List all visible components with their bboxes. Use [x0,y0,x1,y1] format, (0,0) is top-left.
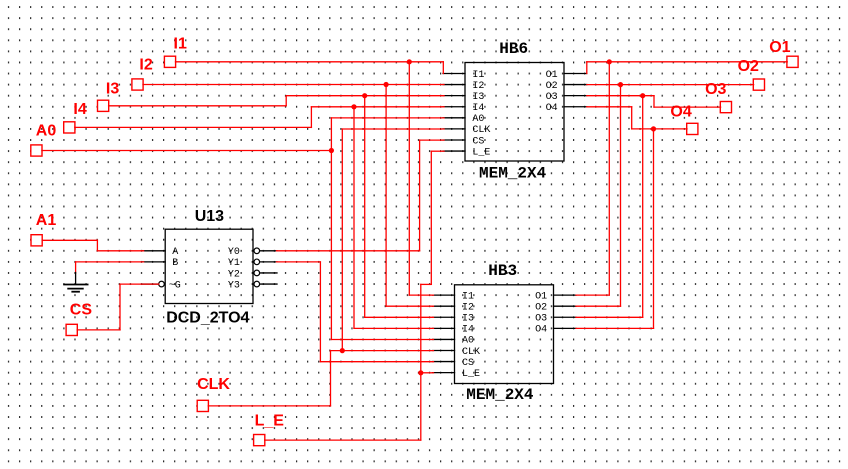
connector CLK [197,400,208,411]
svg-text:O1: O1 [535,291,547,302]
junction net I3 [362,93,367,98]
connector I3 [98,100,109,111]
svg-text:~G: ~G [169,280,181,291]
svg-text:MEM_2X4: MEM_2X4 [466,386,534,404]
HB3 pin I4 stub [433,327,455,329]
wire net O1 from HB3 O1 [576,294,609,296]
wire net O2 trunk down to HB3 [620,85,622,307]
wire U13 B to ground horizontal [76,261,144,263]
svg-text:DCD_2TO4: DCD_2TO4 [166,310,249,327]
wire net I3 horizontal to HB6 I3 [286,95,444,97]
svg-text:HB3: HB3 [488,262,517,280]
ground symbol [64,273,88,292]
hierarchical block HB6 (MEM_2X4) body [465,63,564,162]
wire net I1 trunk down to HB3 [408,62,410,295]
wire net I4 jog up [310,107,312,128]
wire net I3 horizontal from connector [109,105,287,107]
wire net O4 trunk down to HB3 [653,129,655,329]
HB6 pin CS stub [443,139,465,141]
wire net L_E horizontal from connector [265,439,421,441]
wire net CS horizontal from connector [77,329,120,331]
connector O3 [720,102,731,113]
wire net L_E jog right [421,283,432,285]
svg-text:I3: I3 [106,80,119,97]
wire net A1 jog down [96,240,98,251]
junction net A0 [329,148,334,153]
wire net O4 jog down [631,107,633,129]
svg-text:L_E: L_E [472,147,490,158]
wire net I4 horizontal to HB6 I4 [311,106,444,108]
svg-text:I1: I1 [462,291,474,302]
svg-text:L_E: L_E [255,413,285,430]
connector A1 [31,235,42,246]
HB3 pin L_E stub [433,372,455,374]
svg-text:O3: O3 [535,314,547,325]
HB3 pin O1 stub [554,294,577,296]
wire net A0 horizontal from connector [42,150,332,152]
U13 pin Y2 inversion bubble [254,270,260,276]
svg-text:O1: O1 [546,70,558,81]
svg-text:MEM_2X4: MEM_2X4 [479,165,547,183]
svg-text:I3: I3 [462,314,474,325]
junction net CLK [340,348,345,353]
HB6 pin CLK stub [443,128,465,130]
wire net O1 jog up from HB6 O1 [586,62,588,74]
svg-text:I4: I4 [73,101,86,118]
wire net A0 up branch [330,118,332,151]
wire net O4 horizontal to connector [632,128,687,130]
wire net A1 into U13 A [97,250,143,252]
wire net L_E into HB3 L_E [421,372,434,374]
svg-text:CLK: CLK [197,376,230,393]
wire net O3 jog down [653,96,655,107]
decoder U13 (DCD_2TO4) body [165,229,253,303]
junction net O3 [640,93,645,98]
HB6 pin A0 stub [443,117,465,119]
U13 pin ~G stub [143,283,159,285]
wire net I3 jog up [285,96,287,106]
svg-text:U13: U13 [195,208,224,225]
wire net L_E trunk up to HB6 [430,151,432,284]
HB3 pin I2 stub [433,305,455,307]
wire net L_E into HB6 L_E [431,150,444,152]
svg-text:I2: I2 [462,302,474,313]
junction net O4 [651,126,656,131]
connector O2 [753,79,764,90]
svg-text:O2: O2 [535,302,547,313]
HB3 pin I3 stub [433,316,455,318]
svg-text:Y3: Y3 [228,280,240,291]
svg-text:A0: A0 [462,336,474,347]
wire net O3 trunk down to HB3 [642,96,644,318]
U13 pin Y0 inversion bubble [254,248,260,254]
U13 pin B stub [143,261,166,263]
HB6 pin I2 stub [443,84,465,86]
svg-text:B: B [172,258,178,269]
wire net CLK into HB6 CLK [342,128,444,130]
svg-text:CLK: CLK [462,347,480,358]
wire net Y0 horizontal [277,250,420,252]
svg-text:I1: I1 [174,36,187,53]
junction net L_E [418,370,423,375]
U13 pin A stub [143,250,166,252]
wire net CS vertical up [119,284,121,330]
HB6 pin I1 stub [443,73,465,75]
wire net O4 from HB3 O4 [576,327,654,329]
svg-text:A0: A0 [36,123,57,140]
HB3 pin A0 stub [433,338,455,340]
connector I2 [132,79,143,90]
wire net I4 horizontal from connector [75,126,312,128]
svg-text:A: A [172,247,178,258]
connector O4 [687,123,698,134]
junction net I1 [407,59,412,64]
wire net O1 horizontal to connector [587,61,787,63]
wire net I2 horizontal from connector [143,84,444,86]
wire net O3 horizontal to connector [654,106,721,108]
HB3 pin O4 stub [554,327,577,329]
svg-text:I3: I3 [472,92,484,103]
wire net Y0 vertical up [419,140,421,251]
svg-text:Y0: Y0 [228,247,240,258]
svg-text:Y2: Y2 [228,269,240,280]
HB6 pin O2 stub [564,84,587,86]
connector I1 [164,56,175,67]
U13 pin Y0 stub [260,250,277,252]
svg-text:Y1: Y1 [228,258,240,269]
wire net A0 into HB6 A0 [331,117,444,119]
wire net I1 into HB3 I1 [409,294,433,296]
wire net I2 trunk down to HB3 [385,85,387,307]
wire net I3 trunk down to HB3 [364,96,366,318]
junction net I2 [384,82,389,87]
HB6 pin O4 stub [564,106,587,108]
wire net A0 into HB3 A0 [331,339,433,341]
HB3 pin CS stub [433,361,455,363]
connector L_E [254,435,265,446]
wire net I2 into HB3 I2 [386,305,433,307]
svg-text:CS: CS [462,358,474,369]
svg-text:A0: A0 [472,114,484,125]
HB3 pin O3 stub [554,316,577,318]
wire net L_E trunk up [420,284,422,372]
HB6 pin O1 stub [564,73,587,75]
wire net A1 horizontal from connector [42,239,97,241]
HB3 pin I1 stub [433,294,455,296]
svg-text:O4: O4 [546,103,558,114]
wire net L_E vertical up [420,373,422,440]
junction net O2 [618,82,623,87]
wire net O3 from HB3 O3 [576,316,643,318]
wire net CS into U13 ~G [120,283,159,285]
connector I4 [64,122,75,133]
svg-text:A1: A1 [36,212,57,229]
wire net Y1 into HB3 CS [320,361,433,363]
wire net O1 trunk down to HB3 [608,62,610,295]
svg-text:I4: I4 [472,103,484,114]
wire U13 B to ground vertical (red) [75,262,77,273]
U13 pin Y1 stub [260,261,277,263]
svg-text:CS: CS [472,136,484,147]
svg-text:CS: CS [70,301,93,318]
wire net Y1 horizontal [277,261,321,263]
wire net A0 down branch to HB3 [330,151,332,340]
svg-text:O1: O1 [769,39,790,56]
svg-text:O3: O3 [546,92,558,103]
junction net O1 [607,59,612,64]
wire net CLK into HB3 CLK [331,350,434,352]
wire net Y0 into HB6 CS [420,139,444,141]
HB3 pin O2 stub [554,305,577,307]
svg-text:HB6: HB6 [499,40,528,58]
connector O1 [787,56,798,67]
svg-text:O4: O4 [670,104,691,121]
wire net I3 into HB3 I3 [365,316,434,318]
HB6 pin I3 stub [443,95,465,97]
svg-text:CLK: CLK [472,125,490,136]
wire net CLK horizontal from connector [208,405,330,407]
hierarchical block HB3 (MEM_2X4) body [455,285,554,384]
svg-text:L_E: L_E [462,369,480,380]
svg-text:I2: I2 [472,81,484,92]
U13 pin Y1 inversion bubble [254,259,260,265]
svg-text:O3: O3 [705,81,726,98]
HB6 pin L_E stub [443,150,465,152]
wire net I4 into HB3 I4 [354,327,434,329]
connector CS [66,324,77,335]
HB6 pin I4 stub [443,106,465,108]
svg-text:O2: O2 [738,58,759,75]
svg-text:I2: I2 [139,56,152,73]
connector A0 [31,145,42,156]
junction net I4 [351,104,356,109]
wire net CLK trunk up to HB6 [341,129,343,351]
HB3 pin CLK stub [433,350,455,352]
wire net O3 horizontal from HB6 O3 [587,95,654,97]
wire net I1 horizontal from connector [176,61,444,63]
svg-text:I1: I1 [472,70,484,81]
svg-text:O4: O4 [535,325,547,336]
wire net Y1 vertical down [319,262,321,362]
wire net O2 from HB3 O2 [576,305,621,307]
U13 pin Y3 inversion bubble [254,281,260,287]
wire net CLK vertical up [330,351,332,406]
wire net I1 jog down to HB6 I1 [442,62,444,74]
svg-text:I4: I4 [462,325,474,336]
U13 pin Y2 stub [260,272,277,274]
HB6 pin O3 stub [564,95,587,97]
U13 pin ~G inversion bubble [159,281,165,287]
wire net O4 horizontal from HB6 O4 [587,106,632,108]
svg-text:O2: O2 [546,81,558,92]
wire net I4 trunk down to HB3 [353,107,355,329]
U13 pin Y3 stub [260,283,277,285]
wire net O2 horizontal to connector [587,84,754,86]
